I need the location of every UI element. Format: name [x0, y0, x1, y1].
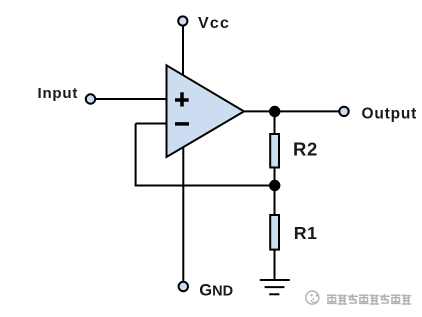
svg-text:Vcc: Vcc: [198, 15, 230, 32]
svg-text:GND: GND: [199, 281, 233, 299]
svg-text:Input: Input: [38, 85, 79, 102]
svg-text:Output: Output: [362, 106, 418, 123]
svg-text:R1: R1: [294, 223, 318, 243]
svg-text:R2: R2: [293, 139, 318, 160]
